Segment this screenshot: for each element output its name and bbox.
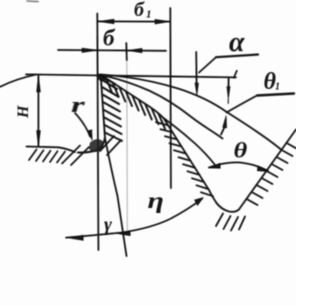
arrow up to junction	[221, 127, 225, 135]
rake face	[101, 75, 105, 139]
b1 right arrowhead	[155, 19, 170, 24]
arrow tip-line to arc1	[228, 79, 230, 86]
top edge smudge	[27, 0, 38, 3]
svg-text:б: б	[134, 0, 145, 21]
tip line	[26, 74, 236, 77]
svg-text:η: η	[148, 187, 164, 213]
alpha label underline	[216, 55, 258, 58]
theta1 leader	[227, 96, 258, 113]
tooth 2 front face	[239, 130, 296, 210]
gullet wall below kink	[164, 118, 217, 203]
label b1	[134, 0, 152, 21]
gullet 2 bottom	[217, 203, 239, 212]
H dimension line	[37, 76, 39, 147]
svg-text:1: 1	[275, 82, 280, 93]
eta arrowhead	[195, 198, 204, 206]
rake face hatch fringe	[102, 80, 117, 89]
tooth 2 face hatch fringe	[248, 200, 258, 206]
H top arrowhead	[37, 76, 41, 92]
gullet 2 bottom hatch	[216, 214, 223, 227]
svg-text:γ: γ	[104, 215, 112, 236]
b left arrowhead	[82, 48, 97, 52]
svg-text:α: α	[229, 27, 245, 58]
theta arc left arrowhead	[209, 163, 221, 168]
gullet wall hatch fringe	[156, 122, 168, 125]
theta1 label underline	[257, 94, 294, 96]
tip line end tick	[234, 71, 237, 78]
theta arc right arrowhead	[257, 166, 268, 172]
gamma mid arrowhead	[118, 232, 130, 236]
svg-text:б: б	[103, 26, 116, 51]
alpha leader	[199, 57, 216, 72]
b1 left arrowhead	[98, 19, 114, 24]
svg-text:r: r	[71, 93, 85, 117]
gamma eta curve	[66, 199, 202, 238]
gullet 1 dark blob	[89, 139, 104, 152]
gullet 1 bottom radius	[78, 138, 105, 153]
label theta1	[264, 69, 281, 95]
r leader curved arrow	[75, 113, 90, 137]
svg-text:1: 1	[146, 9, 152, 21]
vertical radius line through tip	[97, 14, 98, 251]
r arrowhead	[87, 130, 92, 140]
H bottom arrowhead	[37, 131, 41, 148]
b1 right extension line	[169, 8, 172, 188]
tooth tip blob	[98, 74, 108, 83]
tip circle arc left	[0, 75, 36, 87]
back face extension thin	[164, 118, 216, 166]
gullet floor extension line	[27, 147, 76, 153]
b dimension line	[58, 49, 166, 52]
arc 1 (tangent arc from tip)	[101, 75, 281, 150]
gamma left arrowhead	[68, 235, 83, 240]
rake face extension	[105, 138, 127, 256]
svg-text:Н: Н	[15, 105, 32, 119]
back face hatch fringe upper	[107, 80, 113, 93]
b1 dimension line	[98, 20, 170, 22]
b right arrowhead	[127, 48, 142, 52]
gullet 1 radiating hatch	[100, 136, 114, 151]
b right extension line	[125, 43, 128, 60]
floor hatch strokes	[29, 150, 37, 161]
svg-text:θ: θ	[234, 138, 248, 162]
floor long hatch strokes	[62, 146, 80, 164]
alpha angle arrow	[195, 52, 197, 84]
theta arc	[209, 162, 268, 171]
arc 2 (lower arc from tip)	[101, 75, 223, 139]
b extension faint continuation	[126, 60, 129, 230]
tooth back face	[101, 75, 164, 118]
